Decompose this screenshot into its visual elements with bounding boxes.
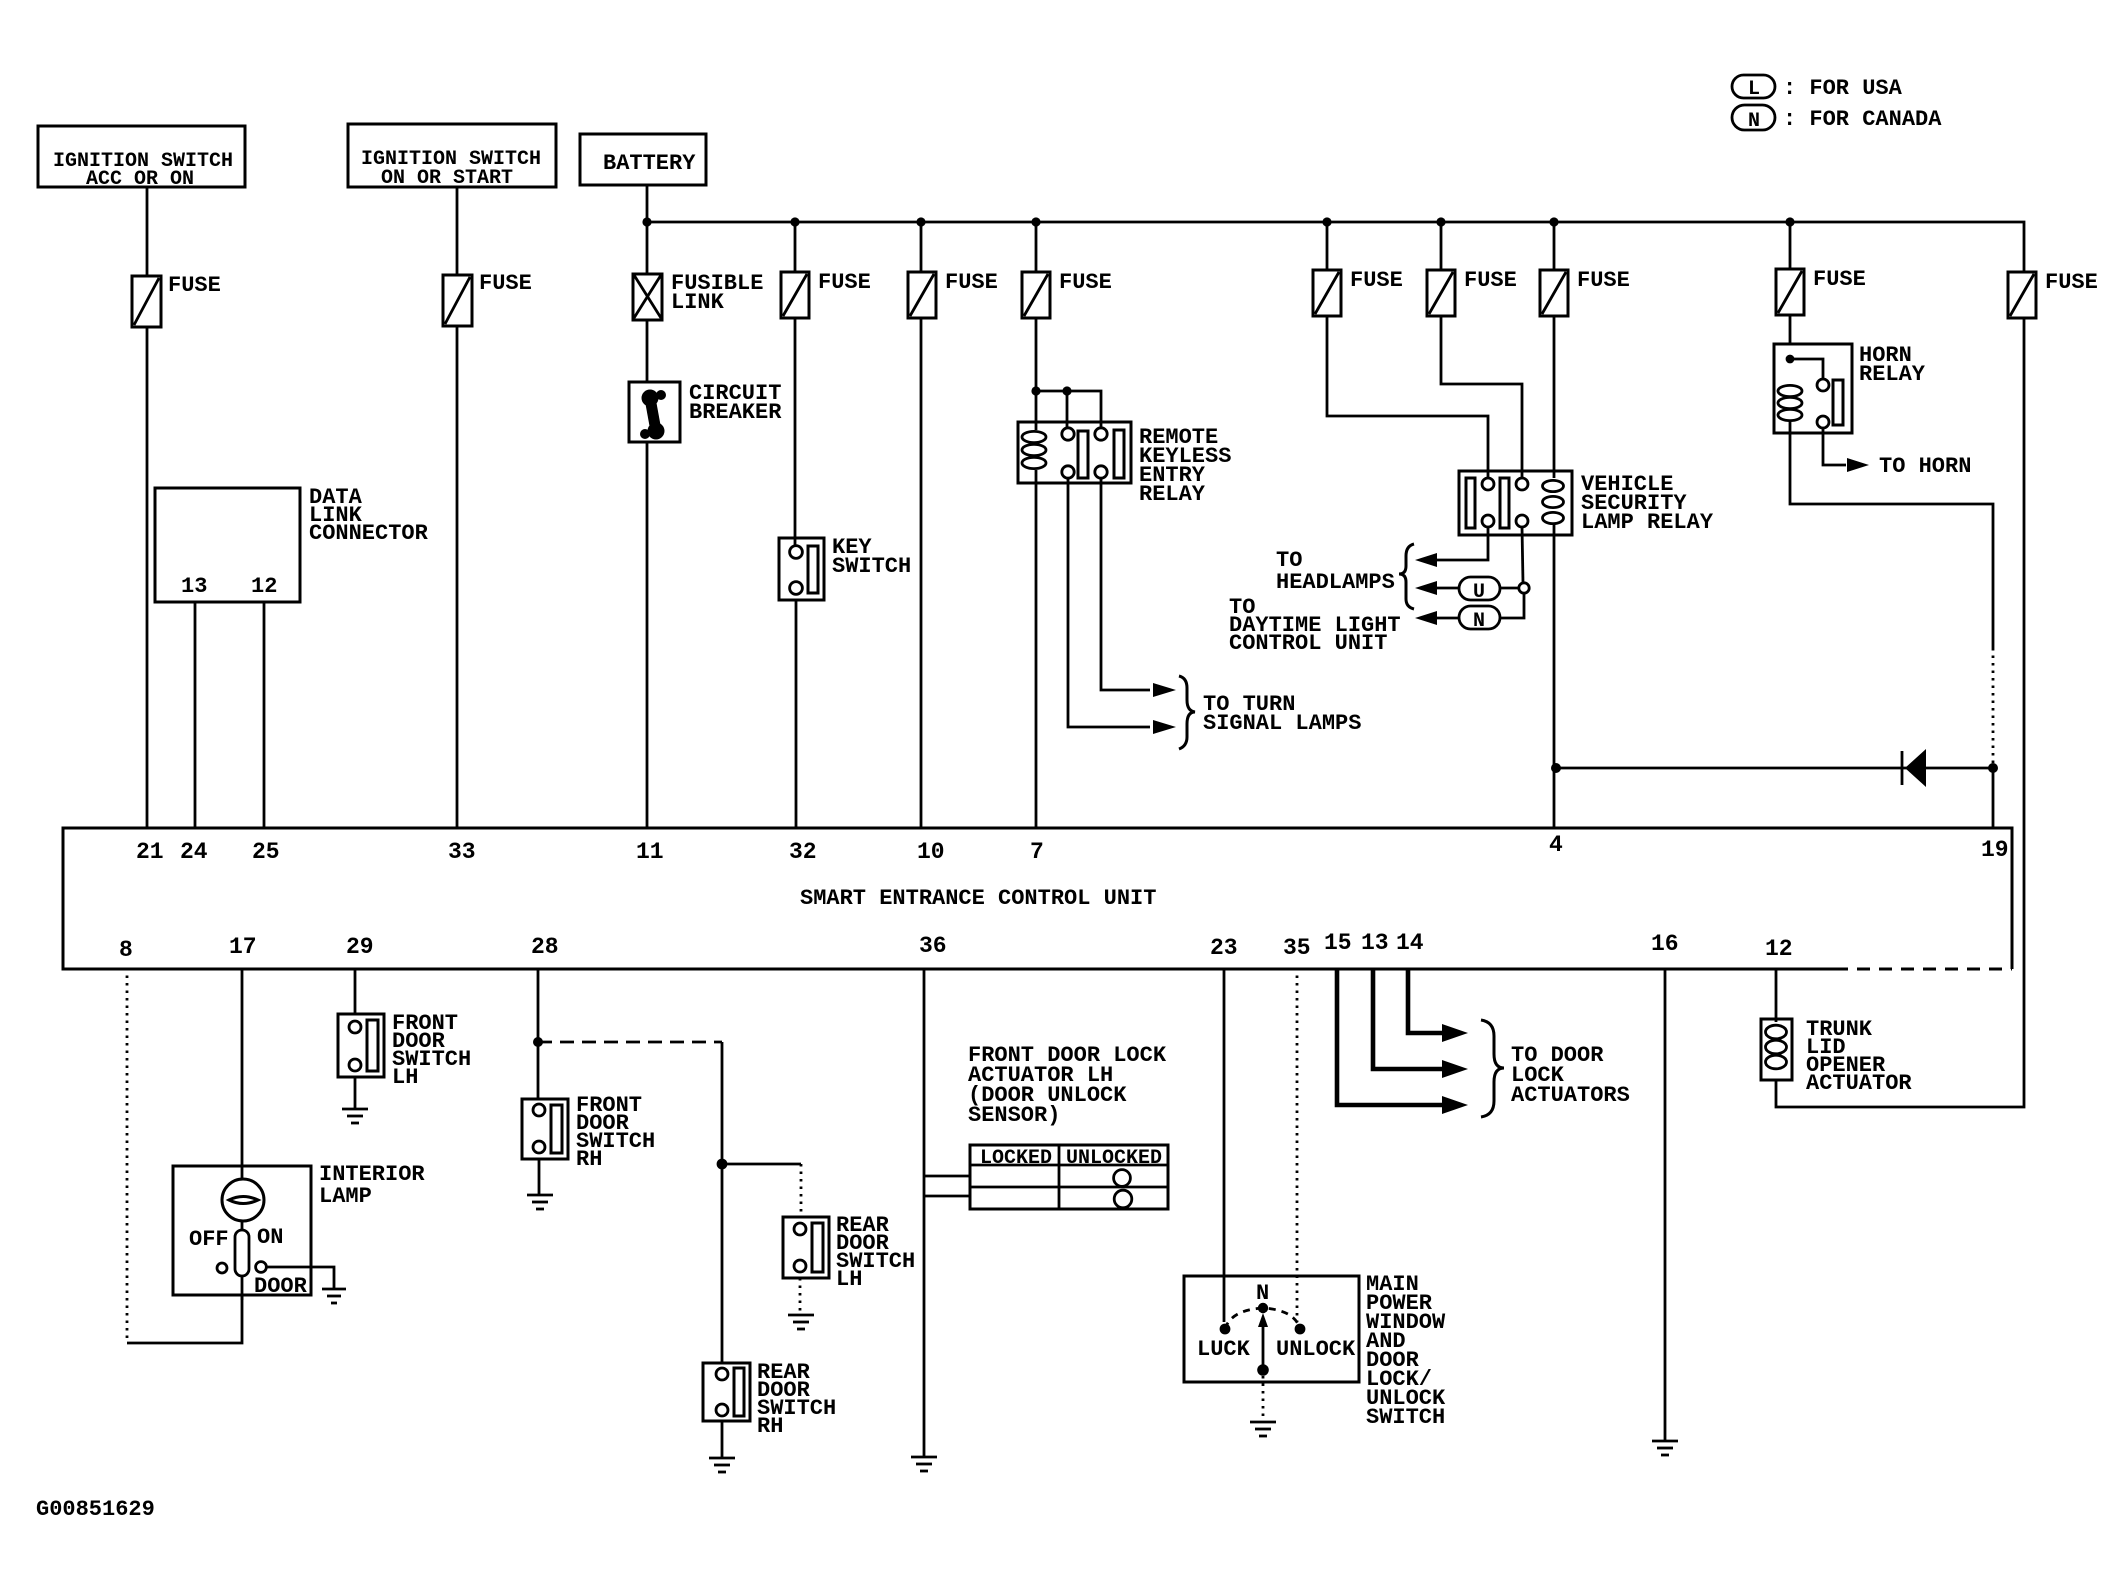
- wire branch to rear door switch LH: [722, 1163, 801, 1166]
- svg-text:16: 16: [1651, 931, 1679, 957]
- wire security relay to U/N node: [1522, 527, 1523, 583]
- node junction keyless coil: [1031, 386, 1040, 395]
- switch FRONT DOOR SWITCH LH: [338, 1011, 471, 1090]
- svg-text:FUSE: FUSE: [1577, 268, 1630, 293]
- switch toggle interior lamp: [189, 1221, 308, 1299]
- svg-text:HEADLAMPS: HEADLAMPS: [1276, 570, 1395, 595]
- ground rear door switch LH: [788, 1315, 814, 1329]
- wire bus drop to fuse x1036: [1035, 222, 1038, 272]
- svg-text:25: 25: [252, 839, 280, 865]
- main power window and door lock/unlock switch: [1184, 1276, 1359, 1382]
- svg-text:FUSE: FUSE: [945, 270, 998, 295]
- svg-text:TO HORN: TO HORN: [1879, 454, 1971, 479]
- ground main power window switch: [1250, 1422, 1276, 1436]
- node junction bus x1035: [1031, 217, 1040, 226]
- wire rear door switch RH to ground: [721, 1421, 724, 1457]
- wire branch down to rear junction: [721, 1042, 724, 1164]
- node brace TO TURN SIGNAL LAMPS: [1179, 676, 1361, 749]
- ground front door switch LH: [342, 1109, 368, 1123]
- fuse F9 (horn relay): [1776, 267, 1866, 315]
- wire pin 13 to door lock arrow: [1373, 968, 1442, 1069]
- svg-text:FUSE: FUSE: [168, 273, 221, 298]
- switch FRONT DOOR SWITCH RH: [522, 1093, 655, 1172]
- wire pin 16 down: [1664, 968, 1667, 1440]
- wire switch dotted to ground: [1262, 1376, 1265, 1421]
- wire fuse F9 to horn relay: [1789, 315, 1792, 344]
- wire keyless relay to turn signal upper: [1101, 478, 1150, 690]
- svg-text:FUSE: FUSE: [1813, 267, 1866, 292]
- arrow door lock 1: [1442, 1024, 1468, 1042]
- wire diode junction to pin 19: [1992, 768, 1995, 828]
- node brace TO HEADLAMPS: [1276, 544, 1414, 609]
- wire trunk actuator return to fuse F10: [1776, 318, 2024, 1107]
- svg-text:LH: LH: [392, 1065, 418, 1090]
- wire keyless relay to turn signal lower: [1068, 478, 1150, 727]
- svg-text:CONTROL UNIT: CONTROL UNIT: [1229, 631, 1387, 656]
- svg-text:14: 14: [1396, 930, 1424, 956]
- wire fuse F6 to security relay: [1327, 316, 1488, 478]
- svg-text:FUSE: FUSE: [479, 271, 532, 296]
- arrow to headlamps: [1415, 553, 1437, 567]
- arrow door lock 2: [1442, 1060, 1468, 1078]
- wire dotted drop to rear door switch LH: [800, 1164, 803, 1217]
- wire key switch to pin 32: [795, 600, 798, 828]
- svg-text:SMART ENTRANCE CONTROL UNIT: SMART ENTRANCE CONTROL UNIT: [800, 886, 1156, 911]
- svg-text:29: 29: [346, 934, 374, 960]
- node oval N (for Canada): [1459, 606, 1500, 633]
- svg-text:OFF: OFF: [189, 1227, 229, 1252]
- ground front door switch RH: [527, 1195, 553, 1209]
- svg-text:12: 12: [251, 574, 277, 599]
- svg-text:L: L: [1748, 78, 1760, 101]
- wire DLC pin 12 to pin 25: [263, 602, 266, 828]
- fuse F4 (pin 10): [908, 270, 998, 318]
- wire security relay to headlamps arrow: [1437, 527, 1488, 560]
- wire front door switch RH to ground: [538, 1159, 541, 1194]
- wire pin 12 to trunk actuator: [1775, 968, 1778, 1022]
- svg-text:RELAY: RELAY: [1139, 482, 1206, 507]
- node brace TO DOOR LOCK ACTUATORS: [1481, 1020, 1630, 1117]
- svg-text:FUSE: FUSE: [818, 270, 871, 295]
- smart entrance control unit box: [63, 828, 2012, 969]
- svg-text:: FOR CANADA: : FOR CANADA: [1783, 107, 1942, 132]
- svg-text:10: 10: [917, 839, 945, 865]
- wire horn relay coil down right: [1790, 421, 1993, 648]
- ground interior lamp: [322, 1289, 346, 1303]
- svg-text:UNLOCKED: UNLOCKED: [1066, 1147, 1162, 1170]
- node junction pin 28: [533, 1037, 543, 1047]
- svg-text:7: 7: [1030, 839, 1044, 865]
- battery B1: [580, 134, 706, 185]
- relay K2 VEHICLE SECURITY LAMP RELAY: [1459, 471, 1714, 535]
- fuse F6 (security relay left): [1313, 268, 1403, 316]
- svg-text:SWITCH: SWITCH: [1366, 1405, 1445, 1430]
- svg-text:11: 11: [636, 839, 664, 865]
- svg-text:U: U: [1473, 581, 1485, 604]
- data link connector: [155, 485, 429, 602]
- arrow TO HORN: [1847, 458, 1869, 472]
- svg-text:LINK: LINK: [671, 290, 725, 315]
- wire rear door switch LH dotted to ground: [799, 1278, 802, 1314]
- wire bus drop to fuse x1327: [1326, 222, 1329, 270]
- wire N oval to arrow: [1437, 617, 1459, 620]
- fusible link FL1: [633, 271, 763, 320]
- wire pin 8 dashed down: [126, 968, 129, 1343]
- wire lamp switch to ground: [266, 1267, 334, 1288]
- wire DLC pin 13 to pin 24: [194, 602, 197, 828]
- node label TO DAYTIME LIGHT CONTROL UNIT: [1229, 595, 1401, 656]
- svg-text:CONNECTOR: CONNECTOR: [309, 521, 429, 546]
- relay K1 REMOTE KEYLESS ENTRY RELAY: [1018, 422, 1231, 507]
- svg-text:8: 8: [119, 937, 133, 963]
- fuse F5 (keyless relay): [1022, 270, 1112, 318]
- wire battery to bus: [646, 185, 649, 274]
- wire U oval to arrow: [1437, 587, 1459, 590]
- svg-text:RH: RH: [757, 1414, 783, 1439]
- wire power bus: [647, 222, 2024, 272]
- node label FRONT DOOR LOCK ACTUATOR LH: [968, 1043, 1167, 1128]
- svg-text:24: 24: [180, 839, 208, 865]
- svg-text:23: 23: [1210, 935, 1238, 961]
- arrow to turn signal upper: [1153, 683, 1176, 697]
- wire branch down to rear door switch RH: [721, 1164, 724, 1363]
- wire fusible link to circuit breaker: [646, 320, 649, 382]
- node junction bus x1441: [1436, 217, 1445, 226]
- wire fuse F5 to keyless relay coil: [1035, 318, 1038, 430]
- wire dotted segment to diode junction: [1992, 648, 1995, 768]
- svg-text:15: 15: [1324, 930, 1352, 956]
- svg-text:33: 33: [448, 839, 476, 865]
- svg-text:G00851629: G00851629: [36, 1497, 155, 1522]
- svg-text:RH: RH: [576, 1147, 602, 1172]
- svg-text:36: 36: [919, 933, 947, 959]
- interior lamp unit: [173, 1162, 425, 1295]
- node junction bus x1327: [1322, 217, 1331, 226]
- svg-text:FUSE: FUSE: [1350, 268, 1403, 293]
- node junction diode right: [1988, 763, 1998, 773]
- fuse F2 (ignition ON/START): [443, 271, 532, 326]
- relay K3 HORN RELAY: [1774, 343, 1926, 433]
- wire keyless relay contact feed: [1036, 391, 1101, 430]
- node IGNITION SWITCH ACC OR ON: [38, 126, 245, 191]
- wire node to U oval: [1500, 587, 1519, 590]
- svg-text:FUSE: FUSE: [1464, 268, 1517, 293]
- wire diode line from pin 4 riser: [1556, 767, 1993, 770]
- svg-text:LAMP RELAY: LAMP RELAY: [1581, 510, 1714, 535]
- wire bus drop to fuse x1554: [1553, 222, 1556, 270]
- wire pin 29 to front door switch LH: [354, 968, 357, 1014]
- node label MAIN POWER WINDOW AND DOOR LOCK/UNLOCK SWITCH: [1366, 1272, 1446, 1430]
- wire stub to actuator row 1: [924, 1175, 970, 1178]
- wire bus drop to fuse x1790: [1789, 222, 1792, 269]
- wire bus drop to fuse x1441: [1440, 222, 1443, 270]
- wire circuit breaker to pin 11: [646, 442, 649, 828]
- node junction rear door branch: [717, 1159, 728, 1170]
- wire pin 28 down: [537, 968, 540, 1099]
- wire fuse F7 to security relay: [1441, 316, 1522, 478]
- svg-text:17: 17: [229, 934, 257, 960]
- node U/N junction: [1519, 583, 1529, 593]
- svg-text:FUSE: FUSE: [1059, 270, 1112, 295]
- wire fuse F4 to pin 10: [920, 318, 923, 828]
- switch REAR DOOR SWITCH RH: [703, 1360, 836, 1439]
- svg-text:4: 4: [1549, 832, 1563, 858]
- wire fuse F8 to security relay coil: [1553, 316, 1556, 478]
- wire pin 8 bottom link to lamp: [127, 1295, 242, 1343]
- wire fuse F1 to pin 21: [146, 327, 149, 828]
- node legend ovals: [1732, 75, 1942, 133]
- fuse F7 (security relay mid): [1427, 268, 1517, 316]
- arrow to daytime light control unit: [1415, 611, 1437, 625]
- wire ignition ACC to fuse: [146, 187, 149, 276]
- svg-text:19: 19: [1981, 837, 2009, 863]
- svg-text:28: 28: [531, 934, 559, 960]
- svg-text:ON OR START: ON OR START: [381, 167, 513, 190]
- ground rear door switch RH: [709, 1458, 735, 1472]
- svg-text:13: 13: [1361, 930, 1389, 956]
- svg-text:RELAY: RELAY: [1859, 362, 1926, 387]
- svg-text:ACTUATOR: ACTUATOR: [1806, 1071, 1912, 1096]
- svg-text:UNLOCK: UNLOCK: [1276, 1337, 1356, 1362]
- wire horn relay contact to horn arrow: [1823, 428, 1846, 465]
- svg-text:ACTUATORS: ACTUATORS: [1511, 1083, 1630, 1108]
- wire keyless relay coil to pin 7: [1035, 470, 1038, 828]
- node oval U (for USA): [1459, 577, 1500, 604]
- key switch KS1: [779, 535, 911, 600]
- svg-text:32: 32: [789, 839, 817, 865]
- front door lock actuator table: [970, 1145, 1168, 1209]
- fuse F10 (far right): [2008, 270, 2098, 318]
- wire pin 35 dotted to switch: [1296, 968, 1299, 1322]
- svg-text:DOOR: DOOR: [254, 1274, 308, 1299]
- wire ignition ON/START to fuse: [456, 187, 459, 275]
- wire lamp bottom lead: [241, 1276, 244, 1300]
- svg-text:ON: ON: [257, 1225, 283, 1250]
- svg-text:N: N: [1256, 1281, 1269, 1306]
- diode D1: [1902, 749, 1926, 787]
- svg-text:N: N: [1473, 610, 1485, 633]
- wire front door switch LH to ground: [354, 1077, 357, 1108]
- svg-text:: FOR USA: : FOR USA: [1783, 76, 1903, 101]
- node junction diode left: [1551, 763, 1561, 773]
- wire bus drop to fuse x795: [794, 222, 797, 272]
- node junction bus x921: [916, 217, 925, 226]
- wire pin 15 to door lock arrow: [1337, 968, 1442, 1105]
- svg-text:21: 21: [136, 839, 164, 865]
- svg-text:ACC OR ON: ACC OR ON: [86, 168, 194, 191]
- svg-text:LOCKED: LOCKED: [980, 1147, 1052, 1170]
- arrow to headlamps lower: [1415, 581, 1437, 595]
- svg-text:35: 35: [1283, 935, 1311, 961]
- switch REAR DOOR SWITCH LH: [783, 1213, 915, 1292]
- wire fuse F2 to pin 33: [456, 326, 459, 828]
- svg-text:LH: LH: [836, 1267, 862, 1292]
- wire pin 14 to door lock arrow: [1408, 968, 1442, 1033]
- node junction bus x794: [790, 217, 799, 226]
- lamp bulb: [222, 1179, 264, 1221]
- svg-text:LAMP: LAMP: [319, 1184, 372, 1209]
- svg-text:SWITCH: SWITCH: [832, 554, 911, 579]
- circuit breaker CB1: [629, 381, 782, 442]
- node junction keyless pin: [1062, 386, 1071, 395]
- ground pin 16: [1652, 1441, 1678, 1455]
- wire pin 23 to switch: [1223, 968, 1226, 1322]
- wire dashed branch right from pin 28: [538, 1041, 722, 1044]
- fuse F1 (ignition ACC): [132, 273, 221, 327]
- wire pin 17 to interior lamp: [241, 968, 244, 1180]
- svg-text:BREAKER: BREAKER: [689, 400, 782, 425]
- svg-text:13: 13: [181, 574, 207, 599]
- svg-text:SIGNAL LAMPS: SIGNAL LAMPS: [1203, 711, 1361, 736]
- svg-text:N: N: [1748, 110, 1760, 133]
- arrow door lock 3: [1442, 1096, 1468, 1114]
- svg-text:LUCK: LUCK: [1197, 1337, 1251, 1362]
- wire bus drop to fuse x921: [920, 222, 923, 272]
- svg-text:BATTERY: BATTERY: [603, 151, 696, 176]
- node IGNITION SWITCH ON OR START: [348, 124, 556, 190]
- svg-text:12: 12: [1765, 936, 1793, 962]
- wire pin 36 down: [923, 968, 926, 1456]
- wire stub to actuator row 2: [924, 1195, 970, 1198]
- fuse F8 (security relay coil): [1540, 268, 1630, 316]
- ground pin 36: [911, 1457, 937, 1471]
- wire security relay coil to pin 4: [1553, 524, 1556, 828]
- node junction battery bus: [642, 217, 651, 226]
- solenoid TRUNK LID OPENER ACTUATOR: [1761, 1017, 1912, 1096]
- wire keyless relay pin drop: [1066, 391, 1069, 430]
- svg-text:FUSE: FUSE: [2045, 270, 2098, 295]
- fuse F3 (key switch): [781, 270, 871, 318]
- node junction bus x1554: [1549, 217, 1558, 226]
- arrow to turn signal lower: [1153, 720, 1176, 734]
- node junction bus x1790: [1785, 217, 1794, 226]
- wire node to N oval: [1500, 593, 1524, 618]
- wire fuse F3 to key switch: [794, 318, 797, 546]
- svg-text:SENSOR): SENSOR): [968, 1103, 1060, 1128]
